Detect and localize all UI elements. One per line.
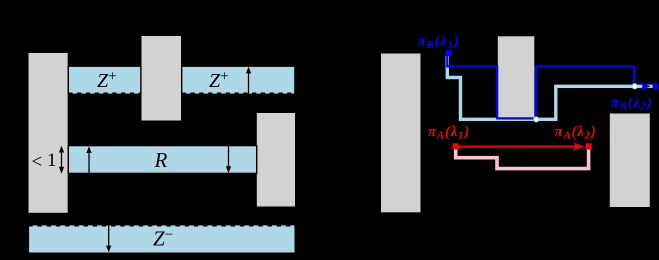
svg-text:< 1: < 1 xyxy=(32,150,57,173)
dark blue path pi_B(lambda1) xyxy=(447,53,634,118)
blue end square marker xyxy=(653,83,659,89)
up arrow in right Z+ slab xyxy=(246,67,251,94)
down arrow into Z- slab xyxy=(106,225,111,252)
red start square marker xyxy=(453,143,459,149)
double-headed height arrow on left gray bar xyxy=(59,146,64,174)
middle gray obstacle bar (right fig) xyxy=(498,36,535,120)
right gray obstacle bar (right fig) xyxy=(610,114,650,208)
down arrow in R slab xyxy=(226,146,231,173)
svg-text:πB(λ1): πB(λ1) xyxy=(418,34,460,52)
left gray obstacle bar xyxy=(29,53,68,213)
svg-text:πB(λ2): πB(λ2) xyxy=(611,95,653,113)
red end square marker xyxy=(586,143,592,149)
up arrow in R slab xyxy=(86,146,91,173)
blue start square marker xyxy=(446,50,452,56)
svg-text:πA(λ2): πA(λ2) xyxy=(555,124,597,142)
pink path pi_A(lambda2) xyxy=(456,147,589,169)
middle gray obstacle bar xyxy=(142,36,182,121)
red arrowhead xyxy=(573,142,585,151)
svg-text:R: R xyxy=(154,148,168,172)
pale blue path pi_B(lambda2) xyxy=(447,53,652,119)
node: white dot at bottom-right corner of middle bar xyxy=(534,117,539,122)
Z+ slab right xyxy=(182,66,295,93)
red path pi_A(lambda1) with arrow xyxy=(456,146,578,148)
R slab xyxy=(68,146,256,174)
left gray obstacle bar (right fig) xyxy=(381,54,421,213)
svg-text:πA(λ1): πA(λ1) xyxy=(428,124,470,142)
Z+ slab left xyxy=(68,66,141,93)
node: white dot at path end xyxy=(632,84,637,89)
right gray obstacle bar xyxy=(257,113,295,207)
Z- slab xyxy=(28,225,295,253)
blue arrowhead at path end xyxy=(639,82,651,91)
